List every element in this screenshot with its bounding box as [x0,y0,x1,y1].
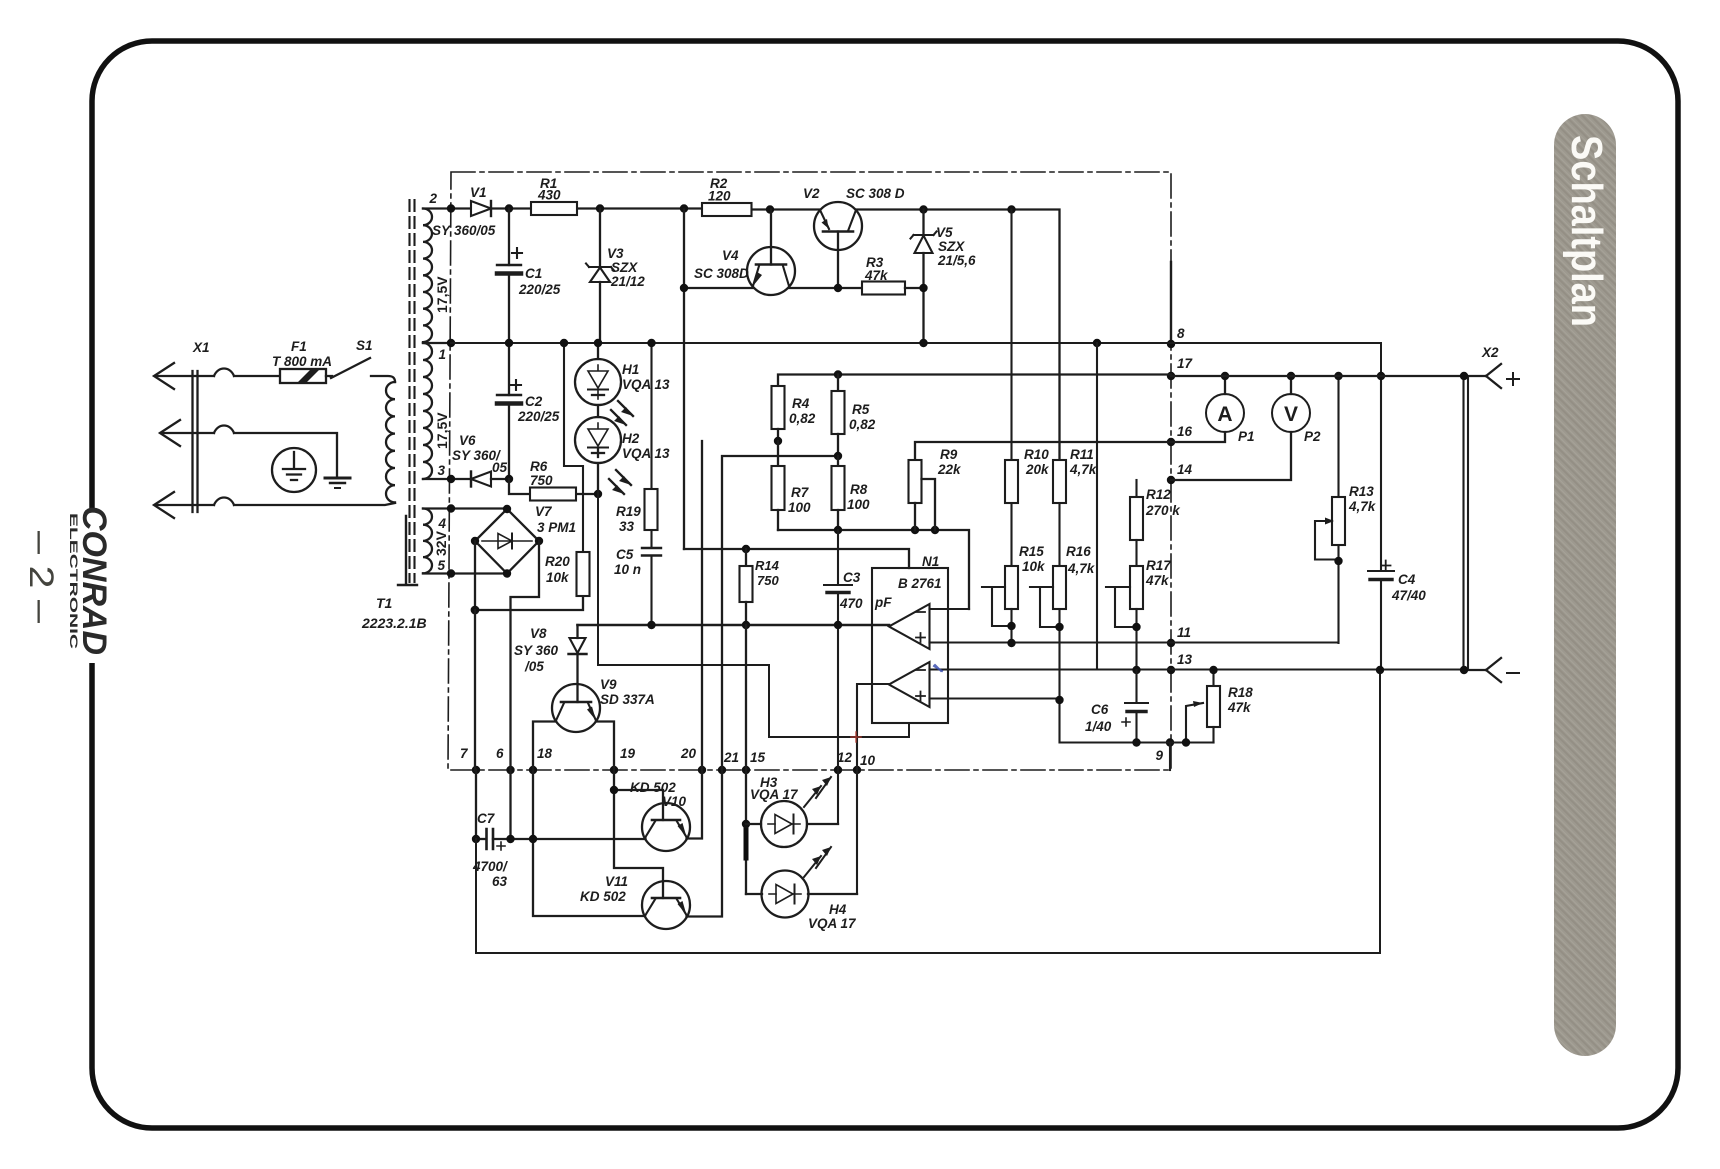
junction V10 base branch [610,786,618,794]
transformer T1 primary winding [386,382,395,502]
wire line 17 [778,375,1171,387]
junction R5 top [834,370,842,378]
trimmer R18 [1182,666,1253,747]
svg-text:430: 430 [537,188,561,203]
junction R9 right leg on sense line [931,526,939,534]
wire X1 bottom line to transformer [157,498,395,506]
svg-text:6: 6 [496,746,504,761]
junction V5 bottom on bus [919,339,927,347]
svg-text:750: 750 [757,573,779,588]
svg-text:10k: 10k [546,570,570,585]
resistor R19 [616,339,658,534]
node 15 [742,750,766,774]
svg-text:4,7k: 4,7k [1348,499,1377,514]
svg-text:R18: R18 [1228,685,1253,700]
node 2 [428,191,455,213]
transistor V4 [694,210,795,296]
junction V5 top [919,205,927,213]
svg-text:SD 337A: SD 337A [600,692,655,707]
svg-text:VQA 13: VQA 13 [622,446,670,461]
svg-text:47k: 47k [864,268,889,283]
svg-text:S1: S1 [356,338,373,353]
capacitor C1 [497,209,561,344]
svg-text:33: 33 [619,519,635,534]
junction V4 emitter [680,284,688,292]
transformer shield lead [398,516,417,585]
wire bridge minus to R20 bottom [475,541,583,610]
blue mark amp2 minus [934,665,942,671]
op-amp N1 upper amplifier [889,604,1338,649]
node 18 [529,746,553,774]
svg-text:V1: V1 [470,185,487,200]
node 21 [718,750,739,774]
svg-text:10k: 10k [1022,559,1046,574]
resistor R20 [545,552,590,596]
svg-text:VQA 17: VQA 17 [808,916,857,931]
svg-text:ELECTRONIC: ELECTRONIC [67,513,79,649]
resistor R4 [772,386,816,441]
red mark node 10 [851,732,861,742]
svg-text:T1: T1 [376,595,393,611]
svg-text:20k: 20k [1025,462,1050,477]
svg-text:C2: C2 [525,394,543,409]
svg-text:R11: R11 [1070,447,1094,462]
svg-text:20: 20 [680,746,697,761]
wire tap 2 [423,207,471,209]
wire R20 hanger [564,343,583,552]
wire V4 emitter to rail [684,210,753,550]
wire tap 1 [423,342,451,344]
junction R14 on drive line [742,621,750,629]
Schaltplan banner [1554,114,1616,1056]
svg-text:R5: R5 [852,402,870,417]
svg-text:47k: 47k [1145,573,1170,588]
resistor R1 [531,176,577,215]
junction R10 top [1007,205,1015,213]
transistor V2 [803,186,905,288]
svg-text:V7: V7 [535,504,553,519]
svg-text:22k: 22k [937,462,962,477]
svg-text:pF: pF [874,595,892,610]
node 11 [1167,625,1191,647]
junction R20 hanger on bus [560,339,568,347]
transformer T1 secondary winding 17,5V upper [423,209,432,343]
junction R8/C3 on sense line [834,526,842,534]
resistor R7 [772,441,812,530]
svg-text:8: 8 [1177,326,1185,341]
node 7 [460,746,480,774]
junction loop on line 13 [1376,666,1384,674]
svg-text:0,82: 0,82 [789,411,816,426]
ground [325,478,350,488]
LED H2 [575,405,670,494]
svg-text:21: 21 [723,750,739,765]
svg-text:63: 63 [492,874,508,889]
svg-text:SY: SY [432,223,452,238]
svg-text:11: 11 [1177,625,1191,640]
svg-text:R7: R7 [791,485,810,500]
svg-text:KD 502: KD 502 [580,889,626,904]
svg-text:R15: R15 [1019,544,1044,559]
svg-text:C1: C1 [525,266,542,281]
resistor R5 [832,375,876,457]
svg-text:14: 14 [1177,462,1193,477]
node 9 [1155,738,1174,763]
resistor R6 [509,459,602,501]
page number [22,531,60,623]
svg-text:21/12: 21/12 [610,274,645,289]
svg-text:SC 308 D: SC 308 D [846,186,905,201]
svg-text:KD 502: KD 502 [630,780,676,795]
svg-text:V8: V8 [530,626,547,641]
svg-text:C4: C4 [1398,572,1416,587]
svg-text:17,5V: 17,5V [434,276,450,313]
X2 double bar [1464,376,1469,670]
svg-text:05: 05 [492,460,508,475]
op-amp N1 box [872,554,948,723]
resistor R10 [1005,210,1050,567]
node 3 [437,463,455,483]
connector X2 minus [1464,658,1519,682]
svg-text:10: 10 [860,753,876,768]
resistor R12 [1130,480,1181,566]
node 19 [610,746,636,774]
transformer T1 secondary winding 32V [423,509,432,574]
capacitor C4 [1368,372,1426,670]
resistor R8 [832,456,871,512]
svg-text:17: 17 [1177,356,1194,371]
svg-text:P2: P2 [1304,429,1321,444]
node 20 [680,746,706,774]
transformer T1 core [410,200,415,582]
trimmer R15 [982,544,1046,647]
Conrad logo [67,506,113,655]
svg-text:1: 1 [438,347,446,362]
svg-text:Schaltplan: Schaltplan [1562,135,1611,327]
capacitor C5 [614,530,661,625]
svg-text:4,7k: 4,7k [1069,462,1098,477]
node 8 [1167,326,1185,348]
svg-text:X1: X1 [192,340,210,355]
junction C5 on drive line [647,621,655,629]
svg-text:1/40: 1/40 [1085,719,1112,734]
svg-text:SC 308D: SC 308D [694,266,749,281]
svg-text:100: 100 [788,500,811,515]
svg-text:R14: R14 [755,558,780,573]
capacitor C6 [1085,670,1148,747]
svg-text:H2: H2 [622,431,640,446]
capacitor C2 [497,339,560,479]
wire node 19 branch to V10 base [614,790,663,820]
transistor V11 [580,456,838,929]
wire node 9 stub [1169,743,1171,771]
zener diode V3 [586,209,645,344]
wire bus corner to plus line [1380,343,1382,376]
svg-text:F1: F1 [291,339,307,354]
wire node 8 solid segment [1170,262,1172,344]
svg-text:CONRAD: CONRAD [75,506,113,655]
svg-text:10 n: 10 n [614,562,641,577]
LED H4 [746,847,857,931]
wire tap 5 [423,572,507,574]
svg-text:220/25: 220/25 [517,409,560,424]
voltmeter P2 [1171,372,1321,480]
wire V4 collector to R3 [789,287,862,289]
current sense line [778,510,969,609]
svg-text:360/05: 360/05 [454,223,496,238]
svg-text:N1: N1 [922,554,939,569]
junction node21 to R5 [834,452,842,460]
wire plus output line [1171,375,1486,377]
svg-text:750: 750 [530,473,553,488]
svg-text:3 PM1: 3 PM1 [537,520,576,535]
svg-text:V6: V6 [459,433,476,448]
svg-text:V9: V9 [600,677,617,692]
node 17 [1167,356,1194,380]
wire X1 top line to fuse [157,369,280,377]
svg-text:V5: V5 [936,225,953,240]
svg-text:R8: R8 [850,482,868,497]
svg-text:15: 15 [750,750,766,765]
svg-text:R12: R12 [1146,487,1171,502]
junction C3 on drive line [834,621,842,629]
junction plus line at double bar [1460,372,1468,380]
svg-text:C3: C3 [843,570,861,585]
svg-text:21/5,6: 21/5,6 [937,253,976,268]
svg-text:V4: V4 [722,248,739,263]
junction R9 left on sense line [911,526,919,534]
svg-text:4,7k: 4,7k [1067,561,1096,576]
svg-text:R6: R6 [530,459,548,474]
node 6 [496,746,515,774]
svg-text:– 2 –: – 2 – [22,531,60,623]
earth symbol circle [272,448,316,492]
svg-text:P1: P1 [1238,429,1255,444]
svg-text:32V: 32V [433,530,449,556]
transistor V10 [630,441,702,851]
junction H3 left [742,820,750,828]
svg-text:X2: X2 [1481,345,1499,360]
capacitor C7 [472,811,645,889]
junction V4 emitter rail [680,204,688,212]
svg-text:2223.2.1B: 2223.2.1B [361,615,427,631]
wire V9 collector to node 18 [533,722,645,917]
svg-text:3: 3 [437,463,445,478]
wire tap 4 [423,507,507,509]
node 1 [438,339,455,362]
svg-text:R16: R16 [1066,544,1091,559]
resistor R2 [702,176,752,216]
svg-text:R13: R13 [1349,484,1374,499]
wire node 7 column [475,610,476,839]
junction node20 to R4 [774,437,782,445]
transistor V9 [552,677,655,732]
svg-text:R20: R20 [545,554,570,569]
fuse F1 [272,339,332,383]
svg-text:A: A [1217,403,1232,426]
wire V9 emitter to node 19 [596,722,663,899]
trimmer R17 [1106,558,1172,670]
LED H3 [746,775,838,847]
node 12 [834,750,853,774]
resistor R3 [862,255,924,295]
trimmer R13 [1315,372,1377,643]
node 5 [437,558,455,578]
trimmer R16 [1030,544,1214,743]
transformer T1 secondary winding 17,5V lower [423,343,432,479]
svg-text:SZX: SZX [938,239,965,254]
svg-text:V11: V11 [605,874,628,889]
op-amp drive line (heavy) [578,624,890,627]
svg-text:9: 9 [1155,748,1163,763]
svg-text:470: 470 [839,596,863,611]
svg-text:16: 16 [1177,424,1193,439]
svg-text:R10: R10 [1024,447,1049,462]
op-amp N1 lower amplifier [857,662,1464,894]
svg-text:0,82: 0,82 [849,417,876,432]
svg-text:17,5V: 17,5V [434,412,450,449]
node 13 [1167,652,1193,674]
LED H1 [575,339,670,425]
wire amp2 minus rail [1096,343,1098,670]
junction C6 top on line 13 [1132,666,1140,674]
svg-text:T 800 mA: T 800 mA [272,354,332,369]
svg-text:V10: V10 [662,794,687,809]
svg-text:270 k: 270 k [1145,503,1181,518]
wire node 15 LED column [745,625,747,894]
resistor R9 [909,447,963,530]
wire X1 middle line to earth [161,426,337,478]
svg-text:H1: H1 [622,362,639,377]
svg-text:12: 12 [837,750,853,765]
wire line 16 [915,442,1171,460]
bridge rectifier V7 [471,504,576,578]
svg-text:5: 5 [437,558,445,573]
svg-text:220/25: 220/25 [518,282,561,297]
wire tap 3 [423,478,470,480]
diode V6 [452,433,513,487]
svg-text:/05: /05 [524,659,544,674]
junction V3 top [596,204,604,212]
svg-text:4: 4 [437,516,446,531]
node 14 [1167,462,1193,484]
svg-text:R17: R17 [1146,558,1172,573]
scan artifact thick segment [744,828,749,858]
svg-text:V: V [1284,403,1298,426]
capacitor C3 [824,530,892,824]
svg-text:120: 120 [708,189,731,204]
svg-text:47k: 47k [1227,700,1252,715]
junction bridge minus [471,606,480,615]
svg-text:100: 100 [847,497,870,512]
junction C1 top [505,204,513,212]
svg-text:R19: R19 [616,504,641,519]
diode V8 [514,625,587,702]
junction V4 base [766,205,774,213]
resistor R11 [1053,447,1098,566]
PCB boundary dash-dot [448,172,1171,770]
svg-text:18: 18 [537,746,553,761]
node 16 [1167,424,1193,446]
connector X1 [154,363,198,518]
svg-text:C6: C6 [1091,702,1109,717]
junction amp2 rail on bus [1093,339,1101,347]
wire node2 rail [491,209,1060,461]
svg-text:R9: R9 [940,447,958,462]
connector X2 plus [1481,345,1519,388]
svg-text:B 2761: B 2761 [898,576,942,591]
node 10 [853,753,876,774]
svg-text:V3: V3 [607,246,624,261]
svg-text:47/40: 47/40 [1391,588,1426,603]
svg-text:4700/: 4700/ [472,859,508,874]
junction minus line at double bar [1460,666,1468,674]
wire V4 emitter line to N1 top [684,549,909,568]
svg-text:C5: C5 [616,547,634,562]
diode V1 [432,185,496,238]
resistor R14 [740,545,780,625]
ammeter P1 [1171,372,1255,444]
svg-text:2: 2 [428,191,437,206]
wire node1 bus [451,342,1381,344]
bottom loop wire [476,670,1380,953]
svg-text:H4: H4 [829,902,847,917]
svg-text:13: 13 [1177,652,1193,667]
svg-text:19: 19 [620,746,636,761]
junction V2 base [834,284,842,292]
zener diode V5 [911,210,977,344]
svg-text:SZX: SZX [611,260,638,275]
LED rail to op-amp [598,494,909,737]
svg-text:C7: C7 [477,811,496,826]
node 4 [437,504,455,531]
wire bridge plus to node 6 [511,541,540,839]
svg-text:R4: R4 [792,396,810,411]
switch S1 [326,338,395,382]
svg-text:VQA 13: VQA 13 [622,377,670,392]
svg-text:V2: V2 [803,186,820,201]
svg-text:VQA 17: VQA 17 [750,787,799,802]
svg-text:SY 360: SY 360 [514,643,559,658]
